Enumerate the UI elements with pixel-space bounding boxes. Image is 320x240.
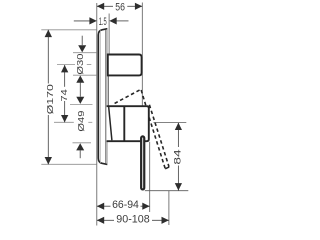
tick dia30 bottom (73, 74, 97, 76)
svg-text:74: 74 (60, 89, 69, 102)
tick dia30 top (73, 52, 97, 54)
tick dia170 bottom (41, 163, 96, 165)
dashed lever lowered-forward position (149, 105, 169, 169)
centerline dash hub (88, 121, 92, 123)
ticks (lighter) (41, 30, 96, 165)
svg-text:56: 56 (115, 1, 125, 13)
extension line lever-tip bottom (168, 191, 170, 225)
extension line 84 bottom (145, 190, 189, 192)
plate inner edge line (99, 30, 101, 163)
hub taper (escutcheon cone) (109, 107, 112, 140)
escutcheon plate profile (98, 29, 107, 165)
svg-text:90-108: 90-108 (116, 214, 149, 226)
dimension 1.5 (outside arrows) (74, 17, 129, 24)
dimension 56 (97, 3, 143, 10)
centerline dash knob (87, 63, 92, 65)
dashed lever tip cap (165, 167, 169, 169)
diverter knob box (108, 55, 142, 76)
dimension 66-94 (97, 203, 150, 210)
dashed lever raised position (115, 89, 146, 105)
dimension dia49 (outside arrows) (76, 143, 84, 158)
svg-text:Ø170: Ø170 (46, 84, 55, 115)
lever handle (solid, hanging down) (141, 136, 144, 189)
tick dia49 bottom (73, 142, 92, 144)
handle hub box (107, 106, 149, 141)
dimension 74 (61, 65, 68, 122)
svg-text:Ø30: Ø30 (76, 53, 85, 75)
dimension dia170 (45, 30, 52, 165)
wall line upper (108, 14, 110, 55)
extension line hub right (149, 142, 151, 212)
extension line 56 right (141, 3, 143, 107)
centerline knob left (57, 64, 75, 66)
tick 74 bottom / dia49 top (70, 103, 93, 105)
wall line mid (108, 75, 110, 106)
extension line 84 top (154, 122, 187, 124)
extension line plate-front plane (96, 3, 98, 226)
dimension 84 (175, 123, 182, 191)
svg-text:84: 84 (172, 149, 182, 164)
svg-text:Ø49: Ø49 (77, 110, 86, 132)
thin extension / tick lines (97, 3, 189, 226)
svg-text:66-94: 66-94 (112, 199, 139, 211)
dimension dia30 (outside arrows) (76, 36, 86, 104)
dimension 90-108 (97, 217, 169, 224)
svg-text:1.5: 1.5 (99, 16, 107, 28)
tick dia170 top (41, 29, 96, 31)
centerline hub left (54, 121, 74, 123)
hub divider (123, 106, 125, 141)
